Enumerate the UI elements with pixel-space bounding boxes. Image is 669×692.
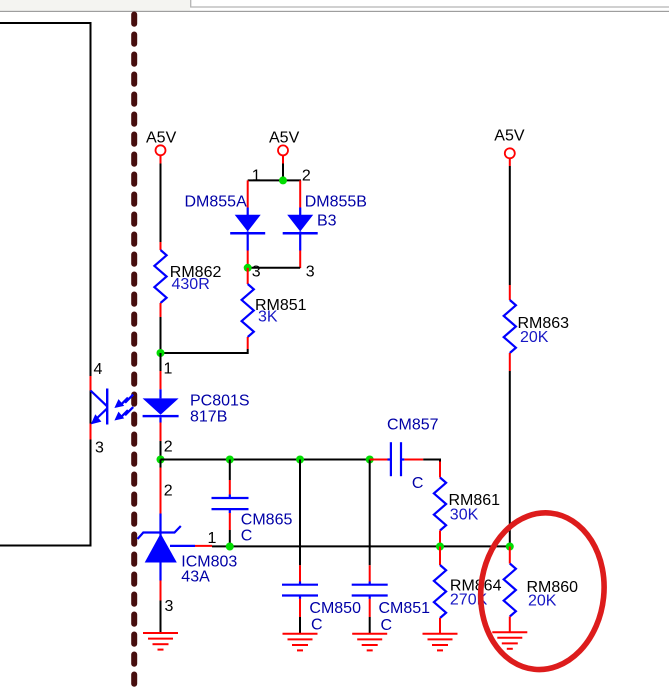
ICM803 cathode bar with flags (138, 526, 181, 539)
capacitor CM850 plates (282, 585, 318, 596)
pin 1 stub of CM865 (229, 480, 231, 495)
DM855B anode lead (299, 208, 301, 216)
ground below CM850 (283, 634, 318, 651)
wire CM851 top (crosses ref rail) (369, 460, 371, 566)
junction dot RM861/RM864 (436, 543, 444, 551)
wire ICM803 anode to ground (160, 601, 162, 633)
svg-text:3: 3 (95, 440, 104, 457)
junction dot CM857 left (366, 456, 374, 464)
CM857 left lead nub (388, 458, 391, 460)
svg-text:CM850: CM850 (309, 600, 361, 617)
diode DM855B cathode bar (283, 232, 318, 235)
CM851 top lead nub (369, 582, 371, 585)
pin 1 stub of CM850 (299, 565, 301, 581)
wire node to PC801S pin 1 (160, 353, 162, 371)
CM851 bottom lead nub (369, 596, 371, 599)
DM855A cathode lead (247, 232, 249, 251)
pin 1 stub of CM851 (369, 565, 371, 581)
toolbar bottom border (0, 11, 669, 12)
junction dot RM863/RM860 (506, 543, 514, 551)
pin 2 stub of CM857 (404, 459, 423, 461)
pin 2 stub of RM864 (439, 618, 441, 633)
pin 2 stub of PC801S LED (160, 423, 162, 442)
capacitor CM865 plates (212, 498, 249, 509)
svg-text:3: 3 (306, 264, 315, 281)
svg-text:C: C (241, 528, 253, 545)
diode bottom rail wire (248, 267, 301, 269)
svg-text:3: 3 (252, 264, 261, 281)
wire RM862 to node (160, 317, 162, 354)
CM865 bottom lead nub (229, 509, 231, 513)
resistor RM851 body (242, 284, 254, 337)
shunt regulator ICM803 triangle (145, 534, 177, 563)
capacitor CM851 plates (352, 585, 388, 596)
wire node to ICM803 cathode (160, 460, 162, 468)
pin 2 of RM862 (160, 303, 162, 317)
FB node rail wire (horizontal y=459.5) (161, 459, 370, 461)
svg-text:4: 4 (94, 361, 103, 378)
phototransistor emitter arrowhead (91, 414, 102, 424)
wire CM850 bottom to ground (299, 617, 301, 633)
svg-text:2: 2 (164, 439, 173, 456)
svg-text:43A: 43A (181, 569, 210, 586)
wire middle A5V down to diode rail (282, 164, 284, 181)
svg-text:1: 1 (164, 361, 173, 378)
resistor RM864 body (434, 565, 446, 618)
optocoupler PC801S LED cathode bar (143, 415, 179, 417)
pin 2 stub of RM860 (509, 617, 511, 632)
toolbar gray strip (0, 0, 190, 11)
svg-text:3K: 3K (258, 309, 278, 326)
svg-text:CM857: CM857 (387, 417, 439, 434)
light arrow 2 (114, 407, 133, 420)
LED cathode lead (159, 417, 161, 422)
dashed page-boundary line (131, 15, 137, 692)
svg-text:DM855A: DM855A (185, 194, 248, 211)
phototransistor emitter (94, 409, 107, 421)
wire CM850 top (crosses ref rail) (299, 460, 301, 566)
phototransistor base bar (106, 389, 108, 425)
wire CM865 bottom to ref rail (229, 530, 231, 548)
pin 1 stub of ICM803 (195, 545, 212, 547)
red annotation ellipse (473, 507, 612, 676)
pin 1 stub of RM864 (439, 547, 441, 566)
diode DM855A cathode bar (230, 232, 265, 235)
ICM803 anode lead (159, 563, 161, 581)
svg-text:2: 2 (302, 167, 311, 184)
svg-text:A5V: A5V (146, 130, 177, 147)
diode DM855A triangle (235, 215, 261, 232)
pin 1 of RM862 (160, 242, 162, 250)
diode DM855B triangle (287, 215, 313, 232)
power port A5V (middle) circle (278, 145, 288, 155)
resistor RM860 body (504, 564, 516, 617)
ICM803 cathode lead (159, 514, 161, 537)
svg-text:1: 1 (208, 530, 217, 547)
svg-text:430R: 430R (172, 276, 210, 293)
wire CM851 bottom to ground (369, 617, 371, 633)
opto LED anode lead (159, 389, 161, 398)
pin 3 stub of DM855A (247, 251, 249, 268)
resistor RM861 body (434, 478, 446, 531)
optocoupler U PC801S LED triangle (143, 398, 179, 414)
DM855A anode lead (247, 208, 249, 216)
resistor RM862 body (154, 250, 166, 303)
wire right A5V to RM863 (509, 166, 511, 285)
svg-text:2: 2 (164, 483, 173, 500)
svg-text:DM855B: DM855B (305, 194, 367, 211)
pin 1 stub of CM857 (left) (370, 459, 388, 461)
svg-text:CM851: CM851 (379, 600, 431, 617)
pin 2 stub of DM855B (299, 180, 301, 207)
resistor RM863 body (504, 300, 516, 353)
pin 4 stub on box edge (90, 376, 92, 391)
stub below middle A5V (282, 155, 284, 163)
svg-text:20K: 20K (520, 329, 549, 346)
svg-text:1: 1 (252, 167, 261, 184)
svg-text:B3: B3 (317, 212, 337, 229)
wire RM851 to node line (247, 349, 249, 354)
CM850 top lead nub (299, 582, 301, 585)
wire A5V to RM862 (160, 164, 162, 243)
ground below ICM803 (143, 633, 178, 650)
svg-text:C: C (412, 475, 424, 492)
junction dot PC801S pin2 node (157, 456, 165, 464)
pin 1 stub of PC801S LED (160, 371, 162, 389)
pin 2 stub of RM863 (509, 353, 511, 371)
junction dot at RM862 bottom node (157, 349, 165, 357)
pin 1 stub of RM863 (509, 285, 511, 300)
svg-text:20K: 20K (528, 593, 557, 610)
wire CM865 top (229, 460, 231, 481)
junction dot on diode rail (279, 176, 287, 184)
big component box (left block) (0, 23, 91, 546)
pin 1 stub of RM860 (509, 547, 511, 564)
capacitor CM857 plates (391, 442, 401, 476)
ICM803 ref lead (170, 545, 195, 547)
pin stub below left A5V (160, 155, 162, 163)
wire CM857 to RM861 corner (423, 460, 440, 462)
svg-text:817B: 817B (190, 409, 227, 426)
junction dot CM850 top (296, 456, 304, 464)
pin 1 stub of RM861 (439, 462, 441, 478)
junction dot diode bottom rail (244, 264, 252, 272)
pin 2 stub of RM851 (247, 337, 249, 349)
white tab panel (191, 0, 669, 7)
pin 3 stub of ICM803 (160, 581, 162, 601)
junction dot CM865 top (226, 456, 234, 464)
pin 2 stub of RM861 (439, 531, 441, 548)
svg-text:C: C (311, 617, 323, 634)
wire RM863 to ref node (509, 371, 511, 548)
ground below CM851 (352, 634, 387, 651)
phototransistor collector (91, 391, 108, 407)
pin 3 stub of DM855B (299, 251, 301, 269)
pin 2 stub of ICM803 (160, 468, 162, 514)
svg-text:A5V: A5V (269, 130, 300, 147)
pin 2 stub of CM865 (229, 513, 231, 530)
pin 2 stub of CM850 (299, 599, 301, 617)
wire node to RM851 bottom (horizontal) (161, 352, 248, 354)
DM855B cathode lead (299, 232, 301, 251)
ref node rail wire (horizontal y=546.5) (212, 545, 510, 547)
pin 3 stub on box edge (90, 424, 92, 440)
wire PC801S pin2 to node (160, 441, 162, 461)
light arrow 1 (114, 395, 133, 408)
stub below right A5V (509, 158, 511, 166)
pin 1 stub of RM851 (247, 268, 249, 284)
ground below RM860 (492, 632, 527, 649)
pin 2 stub of CM851 (369, 599, 371, 617)
CM850 bottom lead nub (299, 596, 301, 599)
svg-text:30K: 30K (450, 507, 479, 524)
svg-text:CM865: CM865 (241, 512, 293, 529)
svg-text:3: 3 (165, 598, 174, 615)
power port A5V (right) circle (505, 148, 515, 158)
svg-text:A5V: A5V (494, 128, 525, 145)
svg-text:C: C (381, 617, 393, 634)
junction dot ICM803 ref (226, 543, 234, 551)
ground below RM864 (423, 634, 458, 651)
svg-text:PC801S: PC801S (190, 393, 250, 410)
CM857 right lead nub (401, 458, 404, 460)
power port A5V (left) circle (156, 145, 166, 155)
pin 1 stub of DM855A (247, 180, 249, 207)
diode rail wire (horizontal) (248, 179, 301, 181)
CM865 top lead nub (229, 495, 231, 499)
